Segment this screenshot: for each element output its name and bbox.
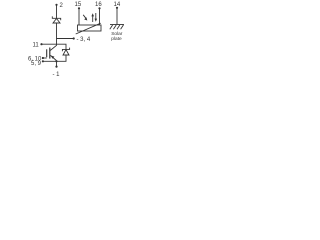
photoresistor body R1	[78, 25, 102, 31]
current arrow up head	[91, 13, 94, 16]
current arrow down head	[95, 19, 98, 22]
wire zener anode down to drain node	[56, 23, 58, 46]
svg-text:- 1: - 1	[53, 72, 61, 78]
transistor Q1 channel bar	[49, 48, 51, 59]
transistor Q1 drain diagonal	[50, 45, 56, 50]
bottom rail wire	[43, 55, 66, 61]
current arrow down	[95, 13, 97, 19]
wire top rail to pins 3,4	[57, 38, 74, 40]
body diode D2 triangle	[63, 50, 69, 55]
light arrow head	[84, 17, 87, 20]
pin 1 pad	[55, 66, 57, 68]
pad pins 6,10	[42, 57, 44, 59]
pin 2 pad	[55, 4, 57, 6]
pin 16 pad	[98, 7, 100, 9]
solar plate hatch 4	[121, 25, 124, 29]
svg-text:2: 2	[60, 3, 64, 9]
wire pin2 to zener	[56, 5, 58, 18]
zener diode D1 triangle	[53, 19, 60, 24]
wire down to pin 1	[56, 61, 58, 66]
svg-text:15: 15	[75, 2, 82, 8]
transistor Q1 emitter diagonal	[50, 55, 56, 60]
wire pin11 to drain node and diode top	[42, 44, 67, 49]
photoresistor diagonal	[76, 23, 101, 34]
pin 14 pad	[116, 7, 118, 9]
junction node pin1	[55, 60, 57, 62]
solar plate hatch 3	[117, 25, 120, 29]
svg-text:plate: plate	[111, 36, 122, 42]
wire pin15 lead	[78, 8, 80, 25]
svg-text:16: 16	[95, 2, 102, 8]
zener diode D1 cathode bar	[52, 16, 60, 20]
wire pin16 lead	[99, 8, 101, 25]
wire pin14 lead	[116, 8, 118, 25]
transistor Q1 gate bar	[46, 49, 48, 57]
current arrow up	[92, 16, 94, 22]
solar plate hatch 2	[113, 25, 116, 29]
pin 11 pad	[40, 43, 42, 45]
pad pins 5,9	[42, 60, 44, 62]
pad pins 3,4	[73, 37, 75, 39]
svg-text:- 3, 4: - 3, 4	[77, 37, 91, 43]
solar plate bar	[110, 24, 124, 26]
pin 15 pad	[78, 7, 80, 9]
svg-text:11: 11	[33, 43, 40, 49]
svg-text:5, 9: 5, 9	[31, 61, 42, 67]
gate wire	[43, 57, 47, 59]
transistor Q1 arrow	[51, 56, 55, 59]
light arrow	[83, 15, 86, 18]
body diode D2 cathode bar	[62, 48, 69, 52]
solar plate hatch 1	[110, 25, 113, 29]
